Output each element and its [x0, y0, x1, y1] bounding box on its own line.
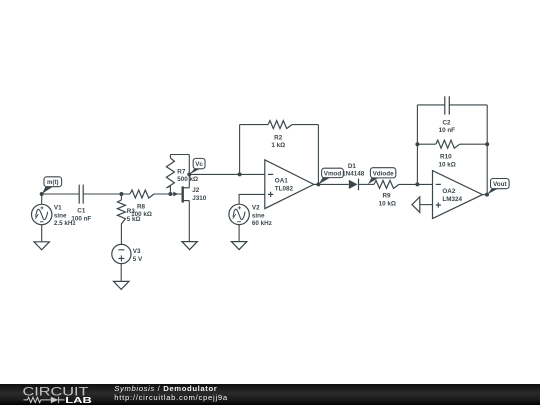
svg-text:V3: V3 — [133, 248, 141, 255]
wire to R10 — [417, 143, 435, 145]
svg-text:Vdiode: Vdiode — [373, 170, 394, 177]
flag node Vout — [487, 179, 509, 195]
svg-text:LM324: LM324 — [442, 196, 462, 203]
svg-text:C2: C2 — [442, 119, 451, 126]
wire junction to R3 — [120, 194, 122, 200]
svg-text:Vout: Vout — [493, 181, 507, 188]
svg-text:R10: R10 — [440, 154, 452, 161]
svg-text:10 kΩ: 10 kΩ — [439, 162, 456, 169]
ground at OA2 non-inverting input (rotated) — [412, 197, 420, 213]
wire drain to OA1 inverting input — [189, 173, 265, 175]
wire C1 to junction — [83, 193, 130, 195]
svg-text:V2: V2 — [252, 205, 260, 212]
wire D1 to R9 — [358, 183, 374, 185]
svg-text:60 kHz: 60 kHz — [252, 220, 272, 227]
wire R8 to J2 gate — [154, 193, 182, 195]
wire OA2 feedback left vertical — [416, 105, 418, 184]
flag node m(t) — [42, 177, 62, 194]
resistor R2 1 k&#937; — [268, 121, 292, 150]
svg-text:R3: R3 — [127, 208, 136, 215]
svg-text:Symbiosis / Demodulator: Symbiosis / Demodulator — [114, 384, 217, 393]
svg-text:TL082: TL082 — [275, 185, 294, 192]
svg-text:100 nF: 100 nF — [71, 215, 91, 222]
wire OA1 output to D1 — [314, 183, 349, 185]
svg-text:1N4148: 1N4148 — [342, 171, 365, 178]
svg-text:J310: J310 — [192, 195, 207, 202]
svg-text:LAB: LAB — [65, 395, 92, 405]
wire gate node to R7 — [169, 186, 171, 194]
svg-text:OA1: OA1 — [275, 178, 288, 185]
wire R7 to top — [169, 155, 171, 159]
svg-text:Vmod: Vmod — [324, 170, 342, 177]
wire OA1 + input to V2 — [239, 194, 265, 204]
wire V1 top lead — [41, 194, 43, 204]
svg-text:OA2: OA2 — [442, 188, 455, 195]
CircuitLab logo — [23, 385, 92, 405]
junction dot at V1 top node — [40, 192, 44, 196]
resistor R10 10 k&#937; — [417, 140, 487, 168]
junction dot R10 left — [415, 142, 419, 146]
junction dot R9/feedback node — [415, 182, 419, 186]
junction dot R7/gate — [168, 192, 172, 196]
footer bar — [0, 384, 540, 405]
resistor R7 500 k&#937; — [166, 155, 198, 195]
svg-text:5 V: 5 V — [133, 256, 143, 263]
capacitor C1 100 nF — [71, 185, 91, 223]
wire feedback left vertical — [239, 125, 241, 175]
wire to R2 — [240, 124, 268, 126]
wire R2 to right vertical — [292, 124, 318, 126]
svg-text:R7: R7 — [177, 168, 186, 175]
capacitor C2 10 nF — [439, 96, 456, 134]
ground below V2 — [231, 242, 246, 250]
svg-text:V1: V1 — [54, 205, 62, 212]
svg-text:http://circuitlab.com/cpejj9a: http://circuitlab.com/cpejj9a — [114, 393, 228, 402]
junction dot feedback to inverting input — [238, 172, 242, 176]
wire R3 to V3 — [120, 224, 122, 245]
source V1 circle — [32, 204, 76, 227]
flag node Vc — [190, 158, 206, 174]
ground below V1 — [34, 242, 49, 250]
wire V2 to ground — [238, 225, 240, 242]
wire OA2 + input to ground — [420, 204, 433, 206]
svg-text:J2: J2 — [192, 187, 200, 194]
voltage source V3 5 V — [112, 244, 143, 263]
svg-text:5 kΩ: 5 kΩ — [127, 216, 141, 223]
svg-text:sine: sine — [54, 212, 67, 219]
junction dot output node Vout — [485, 193, 489, 197]
junction dot at Vc/drain node — [187, 172, 191, 176]
svg-text:R9: R9 — [382, 192, 391, 199]
wire R7 top to drain branch — [170, 154, 189, 156]
junction dot output/feedback node Vmod — [316, 182, 320, 186]
wire R10 to right vertical — [460, 143, 488, 145]
svg-text:1 kΩ: 1 kΩ — [271, 142, 285, 149]
junction dot R10 right — [485, 142, 489, 146]
svg-text:R2: R2 — [274, 134, 283, 141]
wire OA2 output — [483, 194, 488, 196]
wire V1 to ground — [41, 225, 43, 242]
svg-text:10 nF: 10 nF — [439, 127, 456, 134]
svg-text:10 kΩ: 10 kΩ — [379, 201, 396, 208]
wire V3 to ground — [120, 264, 122, 282]
resistor R9 10 k&#937; — [374, 180, 399, 207]
wire J2 source to ground — [188, 201, 190, 242]
wire C2 to right vertical — [449, 104, 487, 106]
flag node Vmod — [319, 168, 344, 184]
svg-text:R8: R8 — [137, 204, 146, 211]
wire to C2 — [417, 104, 444, 106]
ground below V3 — [114, 281, 129, 289]
svg-text:sine: sine — [252, 212, 265, 219]
svg-text:C1: C1 — [77, 208, 86, 215]
svg-text:D1: D1 — [348, 163, 357, 170]
source V2 circle — [229, 204, 272, 227]
diode D1 1N4148 — [342, 163, 365, 190]
op-amp OA2 LM324 — [433, 171, 483, 219]
svg-text:m(t): m(t) — [47, 179, 59, 186]
resistor R3 5 k&#937; — [117, 194, 140, 224]
junction dot C1/R3/R8 node — [119, 192, 123, 196]
flag node Vdiode — [368, 168, 396, 185]
resistor R8 100 k&#937; — [130, 190, 154, 218]
wire feedback right vertical — [317, 125, 319, 185]
op-amp OA1 TL082 — [265, 160, 314, 209]
ground below J2 — [182, 242, 197, 250]
wire OA2 feedback right vertical — [486, 105, 488, 195]
svg-text:Vc: Vc — [195, 161, 203, 168]
transistor J2 J310 (N-JFET) — [173, 186, 207, 202]
wire V1 node to C1 — [42, 193, 79, 195]
wire drain vertical — [188, 155, 190, 188]
svg-text:500 kΩ: 500 kΩ — [177, 176, 198, 183]
wire R9 to OA2 inverting input — [399, 183, 433, 185]
